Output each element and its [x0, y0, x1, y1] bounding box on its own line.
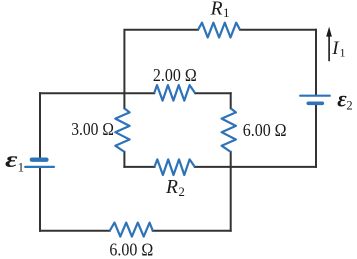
wire left vertical upper (down to battery e1 short plate) — [39, 93, 41, 157]
resistor 3.00 ohm — [115, 108, 129, 151]
svg-text:3.00 Ω: 3.00 Ω — [71, 119, 114, 139]
svg-text:2: 2 — [346, 98, 352, 112]
label e2 — [337, 87, 352, 113]
current arrow I1 — [326, 27, 332, 62]
resistor R2 — [155, 159, 195, 175]
battery e1 short plate (negative) — [32, 157, 47, 161]
wire lower-right vertical (junction down to bottom wire) — [230, 167, 232, 231]
wire mid horizontal right (2.00-ohm right lead to inner top-right corner) — [195, 92, 231, 94]
wire right vertical lower (battery e2 short plate down to bottom-right corner) — [315, 105, 317, 167]
battery e2 long plate (positive) — [300, 95, 330, 97]
resistor 6.00 ohm (bottom) — [110, 223, 153, 237]
label e1 — [5, 147, 24, 175]
svg-text:6.00 Ω: 6.00 Ω — [243, 120, 287, 140]
resistor R1 — [198, 23, 240, 38]
wire right lead of R1 to top-right corner — [240, 29, 316, 31]
svg-text:6.00 Ω: 6.00 Ω — [109, 240, 153, 259]
wire inner-left vertical leads of 3.00-ohm resistor — [123, 93, 125, 167]
resistor 2.00 ohm — [154, 85, 195, 101]
label R2 — [165, 177, 185, 199]
label R1 — [210, 0, 230, 20]
svg-text:ε: ε — [5, 147, 18, 172]
svg-text:R: R — [210, 0, 223, 19]
battery e2 short plate (negative) — [308, 102, 322, 106]
wire mid horizontal left (battery e1 branch to 2.00-ohm left lead) — [40, 92, 154, 94]
svg-text:R: R — [165, 177, 178, 198]
resistor 6.00 ohm (inner right) — [222, 108, 236, 151]
wire top-left corner and left lead of R1 — [124, 30, 198, 93]
wire bottom right (6.00-ohm lead to bottom-right corner) — [153, 230, 231, 232]
battery e1 long plate (positive) — [25, 166, 54, 168]
wire inner-right vertical leads of 6.00-ohm resistor — [230, 93, 232, 167]
wire bottom left (bottom-left corner to 6.00-ohm lead) — [40, 230, 110, 232]
svg-text:1: 1 — [223, 5, 230, 20]
wire inner bottom right (R2 lead through junction to right vertical) — [195, 166, 316, 168]
svg-text:1: 1 — [18, 160, 24, 174]
svg-text:2.00 Ω: 2.00 Ω — [153, 65, 197, 85]
wire right vertical upper (down to battery e2 long plate) — [315, 30, 317, 95]
svg-text:1: 1 — [340, 45, 346, 59]
svg-text:2: 2 — [178, 184, 185, 199]
wire left vertical lower (battery e1 long plate down to bottom-left corner) — [39, 168, 41, 231]
label I1 — [331, 38, 345, 60]
wire inner bottom left (lead of R2) — [124, 166, 154, 168]
